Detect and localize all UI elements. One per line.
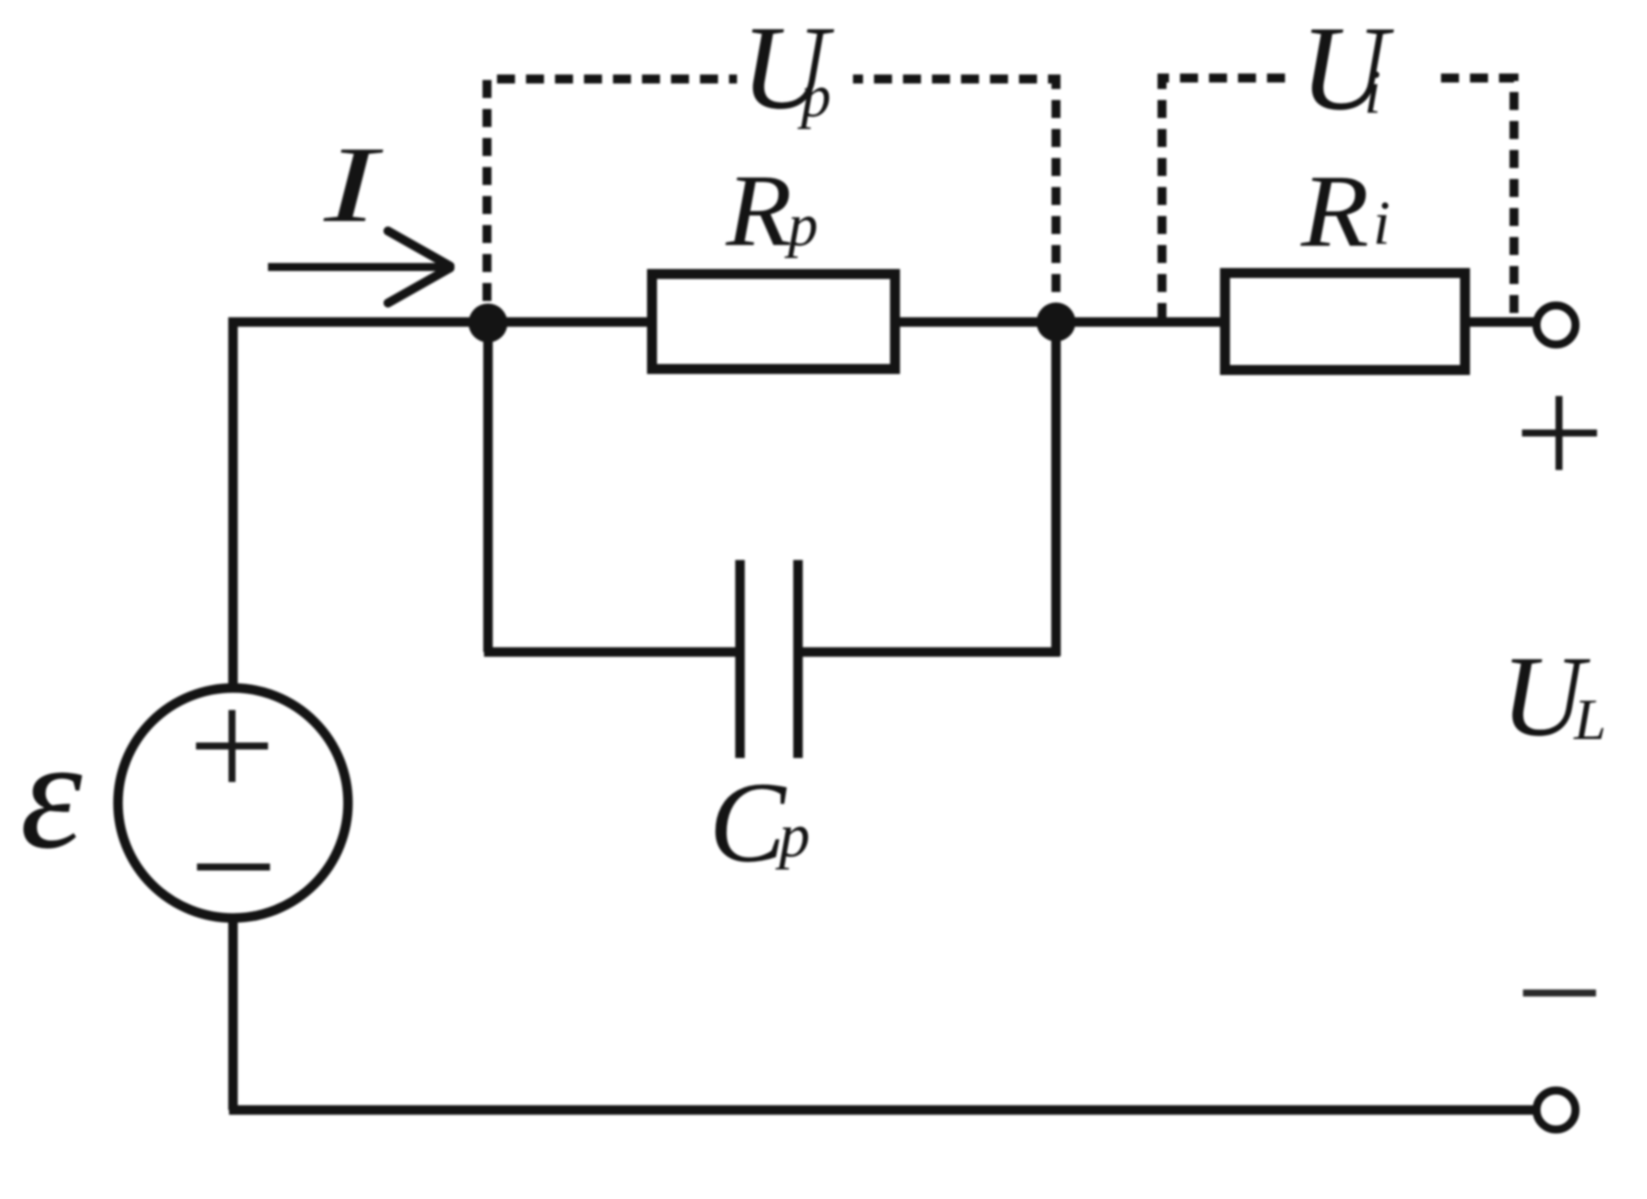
svg-text:p: p <box>784 192 818 258</box>
svg-text:ε: ε <box>20 707 83 882</box>
svg-text:C: C <box>709 759 787 886</box>
wire source bottom rail <box>228 918 238 1110</box>
dashed measurement loop Ui <box>1162 78 1514 321</box>
svg-text:R: R <box>725 154 792 268</box>
Ui label gap mask <box>1293 54 1431 102</box>
minus sign at output <box>1523 990 1596 997</box>
plus sign at output <box>1522 396 1597 470</box>
svg-text:p: p <box>775 802 810 870</box>
node B junction dot <box>1037 303 1076 342</box>
wire Rp to Ri (through node B) <box>895 317 1225 327</box>
minus sign inside source <box>197 864 270 871</box>
svg-text:i: i <box>1373 190 1390 258</box>
Up label gap mask <box>737 55 853 103</box>
voltage source circle <box>118 688 348 918</box>
bottom output terminal <box>1537 1091 1576 1130</box>
wire capacitor right horizontal <box>798 647 1060 657</box>
wire capacitor left horizontal <box>484 647 740 657</box>
svg-text:R: R <box>1300 154 1369 269</box>
wire Ri to top terminal <box>1465 317 1534 327</box>
dashed measurement loop Up <box>487 79 1056 301</box>
svg-text:L: L <box>1573 687 1606 752</box>
wire left rail top: source to node A <box>233 322 492 690</box>
wire node A down to capacitor <box>483 322 493 652</box>
svg-text:I: I <box>323 124 384 245</box>
plus sign inside source <box>196 710 268 782</box>
capacitor Cp plates <box>740 560 798 758</box>
svg-text:p: p <box>797 63 831 129</box>
resistor Ri box <box>1225 273 1465 370</box>
wire node A to Rp <box>488 317 652 327</box>
wire bottom horizontal <box>229 1105 1534 1115</box>
wire node B down to capacitor <box>1051 322 1061 656</box>
resistor Rp box <box>652 274 895 369</box>
node A junction dot <box>469 304 508 343</box>
top output terminal <box>1537 306 1576 345</box>
svg-text:i: i <box>1364 59 1381 127</box>
current arrow I <box>268 231 450 303</box>
